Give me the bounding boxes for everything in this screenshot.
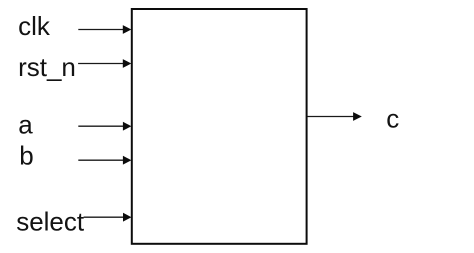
svg-text:b: b — [19, 141, 33, 171]
svg-text:c: c — [386, 103, 399, 133]
svg-text:rst_n: rst_n — [18, 52, 76, 82]
svg-text:clk: clk — [18, 11, 51, 41]
svg-text:select: select — [16, 207, 85, 237]
svg-text:a: a — [18, 110, 33, 140]
